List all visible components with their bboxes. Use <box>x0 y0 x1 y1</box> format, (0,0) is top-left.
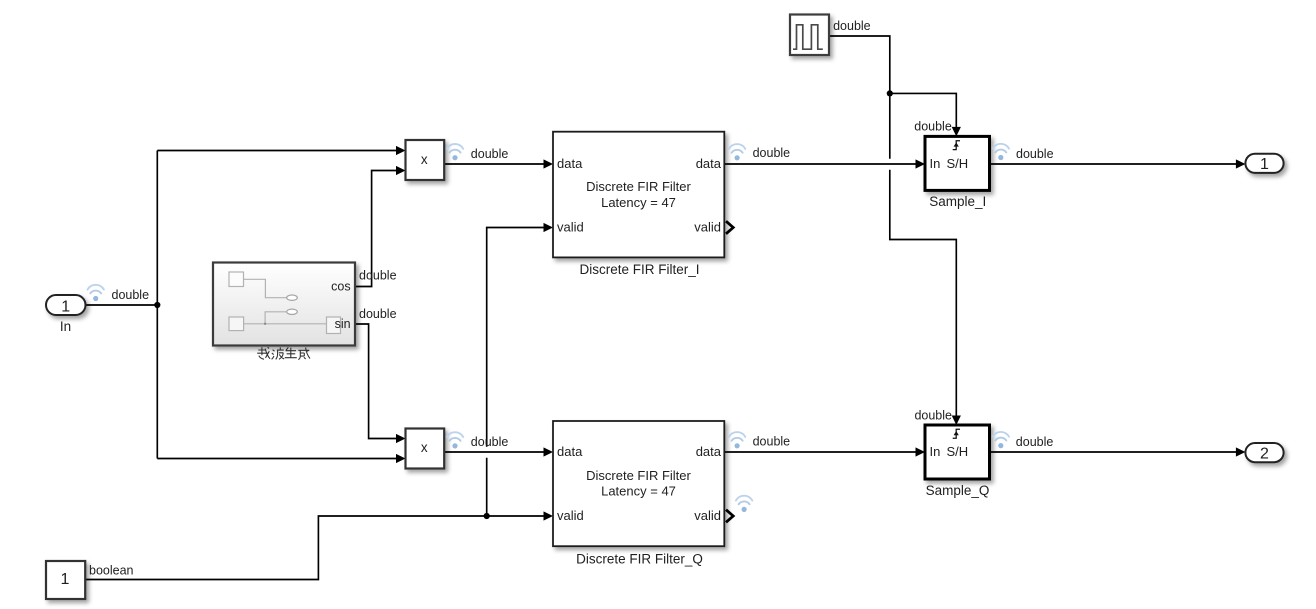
multiply block mult_Q <box>406 429 445 469</box>
node junction on pulse net <box>887 90 893 96</box>
svg-text:Latency = 47: Latency = 47 <box>601 195 676 210</box>
svg-text:double: double <box>471 435 509 449</box>
wire FIR_I data out to Sample_I <box>724 163 916 165</box>
wire Sample_I to Out1 <box>990 163 1237 165</box>
Sample_I In arrow <box>916 159 926 168</box>
FIR_I data input arrow <box>544 159 554 168</box>
inner preview wire 1 <box>244 279 287 297</box>
成 <box>298 348 310 360</box>
svg-text:x: x <box>421 152 428 167</box>
wire cos net <box>355 171 397 287</box>
wire In net <box>86 151 398 459</box>
svg-text:data: data <box>557 156 583 171</box>
mult_I input 2 arrow <box>396 166 406 175</box>
outport 2 <box>1245 443 1283 462</box>
label 载波生成 (drawn strokes) <box>257 347 310 359</box>
signal badge FIR_Q data out <box>729 432 745 448</box>
FIR_Q valid unconnected chevron <box>726 510 733 523</box>
inner preview square 3 <box>327 317 341 334</box>
inport In block <box>46 295 86 334</box>
svg-text:data: data <box>696 156 722 171</box>
svg-text:Discrete FIR Filter: Discrete FIR Filter <box>586 468 691 483</box>
svg-text:cos: cos <box>331 279 350 293</box>
wire mult_Q out <box>444 451 544 453</box>
signal badge mult_Q <box>447 432 463 448</box>
signal badge Sample_I out <box>993 144 1009 160</box>
FIR_I valid input arrow <box>544 223 554 232</box>
svg-text:valid: valid <box>557 220 584 235</box>
pulse waveform glyph <box>793 25 823 49</box>
mult_Q input 1 arrow <box>396 434 406 443</box>
svg-text:double: double <box>359 269 397 283</box>
arrowheads into blocks <box>396 127 1245 521</box>
node junction on In net <box>154 302 160 308</box>
svg-text:S/H: S/H <box>947 156 969 171</box>
inner preview square 1 <box>229 272 244 287</box>
inner preview ellipse 2 <box>287 309 298 314</box>
mult_I input 1 arrow <box>396 146 406 155</box>
svg-text:In: In <box>60 319 71 334</box>
pulse generator block <box>790 15 829 56</box>
mult_Q input 2 arrow <box>396 454 406 463</box>
subsystem 载波生成 <box>213 263 355 346</box>
wire mult_I out <box>444 163 544 165</box>
svg-text:Discrete FIR Filter_Q: Discrete FIR Filter_Q <box>576 551 703 566</box>
sample hold block Sample_Q <box>925 425 990 498</box>
svg-text:double: double <box>471 147 509 161</box>
波 <box>272 347 285 359</box>
FIR filter block Q <box>553 421 733 566</box>
svg-text:valid: valid <box>694 220 721 235</box>
inner preview ellipse 1 <box>287 295 298 300</box>
trigger glyph <box>953 429 960 438</box>
svg-text:2: 2 <box>1260 445 1269 462</box>
svg-text:double: double <box>112 288 150 302</box>
signal badge In <box>88 285 104 301</box>
node junction on boolean net <box>484 513 490 519</box>
svg-text:double: double <box>1016 435 1054 449</box>
Sample_Q In arrow <box>916 447 926 456</box>
svg-text:Latency = 47: Latency = 47 <box>601 483 676 498</box>
sample hold block Sample_I <box>925 136 990 209</box>
signal badge FIR_I out <box>729 144 745 160</box>
wire FIR_Q data out to Sample_Q <box>724 451 916 453</box>
生 <box>285 347 297 357</box>
svg-text:double: double <box>914 119 952 133</box>
svg-text:double: double <box>914 409 952 423</box>
svg-text:Sample_Q: Sample_Q <box>926 483 990 498</box>
svg-text:valid: valid <box>694 508 721 523</box>
svg-text:x: x <box>421 440 428 455</box>
svg-text:double: double <box>753 434 791 448</box>
svg-text:double: double <box>753 146 791 160</box>
inner preview square 2 <box>229 317 244 331</box>
wire boolean net <box>86 228 545 580</box>
signal badge mult_I <box>447 144 463 160</box>
svg-text:double: double <box>833 19 871 33</box>
svg-text:1: 1 <box>1260 156 1269 173</box>
Sample_I trigger down arrow <box>952 127 961 137</box>
svg-text:Discrete FIR Filter_I: Discrete FIR Filter_I <box>579 262 699 277</box>
wire Sample_Q to Out2 <box>990 451 1237 453</box>
svg-text:Sample_I: Sample_I <box>929 194 986 209</box>
svg-text:valid: valid <box>557 508 584 523</box>
svg-text:double: double <box>359 307 397 321</box>
svg-text:boolean: boolean <box>89 563 134 577</box>
svg-text:In: In <box>930 156 941 171</box>
svg-text:sin: sin <box>335 317 351 331</box>
inner preview wire 2 <box>265 312 287 324</box>
wire pulse net <box>829 36 956 417</box>
Out2 arrow <box>1236 447 1246 456</box>
constant block 1 <box>46 561 85 599</box>
载 <box>257 347 270 359</box>
svg-text:Discrete FIR Filter: Discrete FIR Filter <box>586 179 691 194</box>
signal badge Sample_Q out <box>993 432 1009 448</box>
svg-text:1: 1 <box>61 298 70 315</box>
svg-text:S/H: S/H <box>947 444 969 459</box>
FIR_Q data input arrow <box>544 447 554 456</box>
svg-text:data: data <box>557 444 583 459</box>
svg-text:data: data <box>696 444 722 459</box>
trigger glyph <box>953 141 960 150</box>
signal badge FIR_Q valid <box>736 496 752 512</box>
FIR_Q valid input arrow <box>544 511 554 520</box>
multiply block mult_I <box>406 140 445 180</box>
inner preview wire 3 <box>244 323 327 325</box>
outport 1 <box>1245 154 1283 173</box>
svg-text:double: double <box>1016 147 1054 161</box>
FIR filter block I <box>553 132 733 277</box>
svg-text:1: 1 <box>60 571 69 588</box>
Sample_Q trigger down arrow <box>952 416 961 426</box>
Out1 arrow <box>1236 159 1246 168</box>
FIR_I valid unconnected chevron <box>726 221 733 234</box>
svg-text:In: In <box>930 444 941 459</box>
wire sin net <box>355 324 397 439</box>
